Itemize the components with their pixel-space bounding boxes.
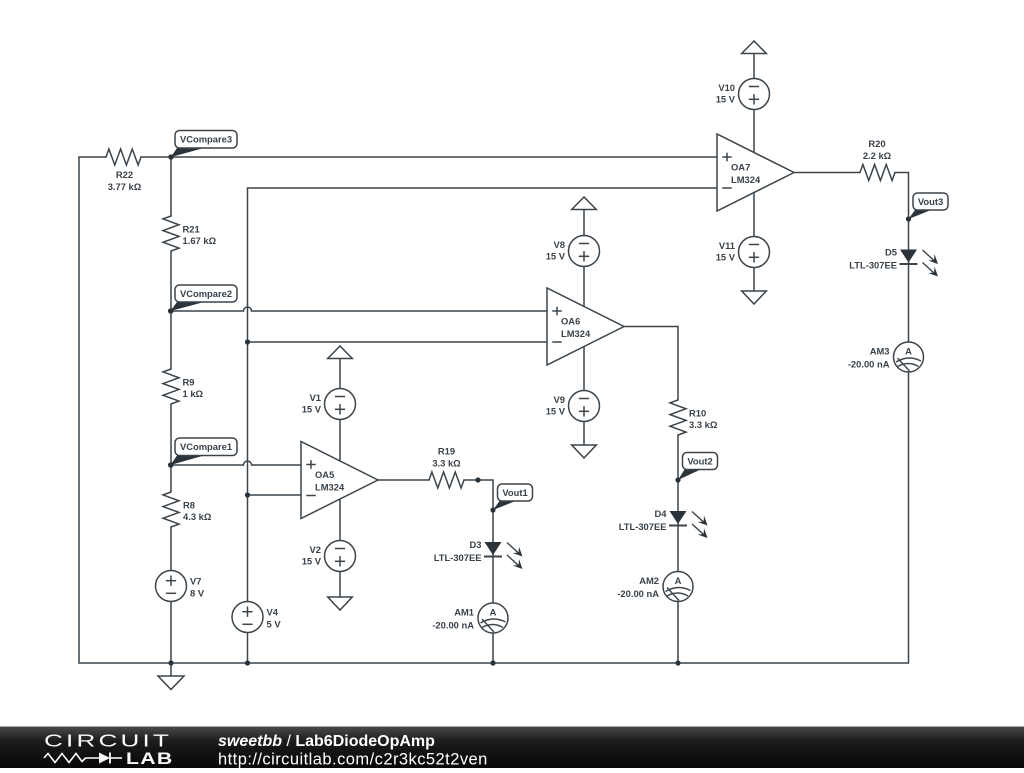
svg-text:OA5: OA5	[315, 469, 334, 480]
svg-text:D4: D4	[655, 508, 668, 519]
wire col B to OA7 -in	[248, 187, 718, 189]
voltage source V8	[546, 236, 600, 267]
wire hop over column B at y=311	[244, 307, 252, 311]
wire right rail	[908, 173, 910, 664]
wire OA5 through V2 to V- arrow	[339, 499, 341, 597]
ammeter AM1	[432, 603, 508, 633]
wire VCompare1 net to OA5 +in	[252, 464, 302, 466]
svg-text:3.3 kΩ: 3.3 kΩ	[689, 419, 718, 430]
svg-text:R9: R9	[183, 376, 195, 387]
node label VCompare3	[168, 131, 237, 160]
wire V+ arrow through V10 to OA7	[753, 53, 755, 153]
op-amp OA5	[301, 442, 378, 519]
svg-text:AM2: AM2	[639, 575, 659, 586]
svg-text:R20: R20	[868, 138, 885, 149]
svg-text:A: A	[490, 606, 497, 617]
wire V+ arrow through V1 to OA5	[339, 358, 341, 461]
voltage source V1	[302, 389, 356, 420]
ground	[158, 676, 184, 690]
voltage source V2	[302, 541, 356, 572]
svg-text:sweetbb / Lab6DiodeOpAmp: sweetbb / Lab6DiodeOpAmp	[218, 733, 435, 750]
wire R19 to corner	[464, 479, 493, 481]
svg-text:http://circuitlab.com/c2r3kc52: http://circuitlab.com/c2r3kc52t2ven	[218, 750, 488, 768]
svg-text:OA7: OA7	[731, 161, 750, 172]
svg-text:3.77 kΩ: 3.77 kΩ	[108, 181, 142, 192]
svg-text:Vout2: Vout2	[687, 455, 712, 466]
svg-text:R10: R10	[689, 407, 706, 418]
resistor R8	[163, 492, 212, 527]
node label Vout2	[675, 453, 717, 483]
svg-text:15 V: 15 V	[302, 404, 322, 415]
power flag up (V8 rail)	[572, 197, 597, 210]
svg-text:AM1: AM1	[454, 606, 474, 617]
resistor R22	[106, 149, 142, 192]
svg-text:V7: V7	[190, 575, 201, 586]
svg-text:LTL-307EE: LTL-307EE	[849, 259, 897, 270]
svg-text:2.2 kΩ: 2.2 kΩ	[863, 150, 892, 161]
node junction AM2 / bottom rail	[675, 660, 680, 665]
wire top-left to R22	[79, 156, 106, 158]
svg-text:R19: R19	[438, 446, 455, 457]
LED D5	[849, 246, 938, 276]
wire hop over column B at y=465	[244, 461, 252, 465]
node label VCompare2	[168, 285, 237, 314]
ammeter AM3	[848, 342, 924, 372]
svg-text:-20.00 nA: -20.00 nA	[432, 619, 474, 630]
node label Vout1	[490, 484, 532, 513]
power flag down (V9 rail)	[572, 445, 597, 458]
svg-text:15 V: 15 V	[716, 252, 736, 263]
voltage source V11	[716, 237, 770, 268]
svg-text:LM324: LM324	[315, 481, 345, 492]
wire OA7 out to R20	[794, 172, 860, 174]
svg-text:V9: V9	[554, 394, 565, 405]
svg-text:V11: V11	[719, 240, 735, 251]
node label Vout3	[906, 193, 948, 222]
wire OA6 through V9 to V- arrow	[583, 346, 585, 445]
node label VCompare1	[168, 438, 237, 468]
wire R8 through V7 to bottom rail	[170, 527, 172, 663]
svg-text:A: A	[675, 575, 682, 586]
svg-text:5 V: 5 V	[267, 618, 282, 629]
power flag down (V2 rail)	[328, 597, 353, 610]
svg-text:R22: R22	[116, 169, 133, 180]
svg-text:VCompare3: VCompare3	[180, 134, 232, 145]
wire R21 to R9	[170, 251, 172, 369]
svg-text:-20.00 nA: -20.00 nA	[617, 588, 659, 599]
svg-text:15 V: 15 V	[546, 251, 566, 262]
wire VCompare2 net left part	[171, 310, 244, 312]
svg-text:8 V: 8 V	[190, 587, 205, 598]
node junction ground / bottom rail	[168, 660, 173, 665]
LED D3	[434, 539, 523, 569]
svg-text:-20.00 nA: -20.00 nA	[848, 358, 890, 369]
wire R20 to right rail	[895, 172, 909, 174]
svg-text:15 V: 15 V	[716, 94, 736, 105]
power flag down (V11 rail)	[742, 291, 767, 304]
svg-text:V1: V1	[310, 392, 321, 403]
svg-text:1.67 kΩ: 1.67 kΩ	[183, 235, 217, 246]
resistor R20	[860, 138, 895, 180]
svg-text:Vout1: Vout1	[502, 487, 527, 498]
op-amp OA6	[547, 288, 624, 365]
wire OA5 out to R19	[378, 479, 429, 481]
voltage source V4	[232, 602, 281, 633]
svg-text:1 kΩ: 1 kΩ	[183, 388, 204, 399]
node junction col B / OA6 -in	[245, 339, 250, 344]
wire corner down to R10	[677, 327, 679, 401]
wire OA6 out	[624, 326, 678, 328]
wire R9 through VCompare1 node to R8	[170, 404, 172, 492]
svg-text:V4: V4	[267, 606, 279, 617]
svg-text:V10: V10	[718, 82, 735, 93]
wire V+ arrow through V8 to OA6	[583, 209, 585, 306]
wire col B to OA5 -in	[248, 494, 302, 496]
svg-text:LAB: LAB	[126, 750, 173, 768]
LED D4	[619, 508, 708, 538]
svg-text:V8: V8	[554, 239, 565, 250]
svg-text:4.3 kΩ: 4.3 kΩ	[183, 511, 212, 522]
resistor R10	[670, 400, 718, 435]
node junction VCompare1	[168, 462, 173, 467]
wire VCompare1 net left part	[171, 464, 244, 466]
wire OA7 through V11 to V- arrow	[753, 192, 755, 291]
wire R10 through D4 AM2 to bottom rail	[677, 435, 679, 663]
svg-text:AM3: AM3	[870, 345, 890, 356]
wire VCompare2 net to OA6 +in	[252, 310, 548, 312]
svg-text:LTL-307EE: LTL-307EE	[619, 521, 667, 532]
logo diode	[99, 753, 122, 764]
node junction AM1 / bottom rail	[490, 660, 495, 665]
svg-text:3.3 kΩ: 3.3 kΩ	[432, 458, 461, 469]
wire Vout1 column down to bottom rail	[492, 480, 494, 663]
wire VCompare3 node down to R21	[170, 157, 172, 216]
svg-text:R8: R8	[183, 499, 195, 510]
svg-text:VCompare1: VCompare1	[180, 441, 232, 452]
logo resistor zigzag	[44, 754, 99, 763]
node junction col B / OA5 -in	[245, 492, 250, 497]
node junction VCompare3	[168, 154, 173, 159]
wire left rail	[78, 157, 80, 663]
svg-text:OA6: OA6	[561, 315, 580, 326]
svg-text:A: A	[905, 345, 912, 356]
wire column B (V4 net)	[247, 188, 249, 663]
svg-text:LTL-307EE: LTL-307EE	[434, 552, 482, 563]
svg-text:VCompare2: VCompare2	[180, 288, 232, 299]
svg-text:V2: V2	[310, 544, 321, 555]
voltage source V10	[716, 79, 770, 110]
power flag up (V10 rail)	[742, 41, 767, 54]
wire col B to OA6 -in	[248, 341, 548, 343]
resistor R19	[429, 446, 464, 488]
svg-text:R21: R21	[183, 223, 200, 234]
svg-text:15 V: 15 V	[302, 556, 322, 567]
svg-text:D3: D3	[470, 539, 482, 550]
power flag up (V1 rail)	[328, 346, 353, 359]
op-amp OA7	[717, 134, 794, 211]
svg-text:LM324: LM324	[561, 328, 591, 339]
resistor R9	[163, 369, 204, 404]
wire bottom rail	[79, 662, 909, 664]
svg-text:15 V: 15 V	[546, 406, 566, 417]
voltage source V7	[156, 571, 205, 602]
wire VCompare3 net to OA7 +in	[141, 156, 717, 158]
wire ground stem	[170, 663, 172, 676]
node junction R19 output	[475, 477, 480, 482]
node junction VCompare2	[168, 308, 173, 313]
resistor R21	[163, 216, 217, 251]
svg-text:D5: D5	[885, 246, 897, 257]
svg-text:LM324: LM324	[731, 174, 761, 185]
ammeter AM2	[617, 572, 693, 602]
svg-text:CIRCUIT: CIRCUIT	[44, 730, 172, 750]
svg-text:Vout3: Vout3	[918, 196, 943, 207]
node junction V4 / bottom rail	[245, 660, 250, 665]
voltage source V9	[546, 391, 600, 422]
